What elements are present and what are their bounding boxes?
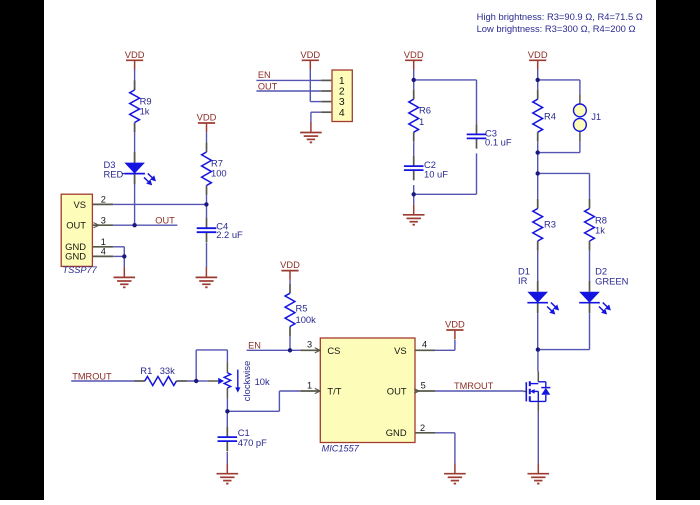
svg-text:OUT: OUT — [258, 81, 278, 91]
svg-text:2: 2 — [420, 423, 425, 433]
svg-text:5: 5 — [421, 380, 426, 390]
wire OUT pin5 to gate — [435, 390, 523, 392]
net label OUT at TSSP77 — [155, 215, 175, 225]
label TSSP77 — [63, 265, 98, 275]
svg-text:clockwise: clockwise — [242, 361, 253, 402]
svg-text:OUT: OUT — [155, 215, 175, 225]
svg-text:R5: R5 — [296, 303, 308, 314]
wire VDD to R4 node — [537, 70, 539, 90]
junction R3 R8 branch — [536, 171, 540, 175]
wire VDD to R6 node — [413, 70, 415, 90]
pin 4 GND — [65, 247, 113, 262]
power VDD above R7 — [197, 112, 217, 133]
net label EN at R5 — [248, 341, 261, 351]
pin 3 OUT — [66, 215, 113, 230]
svg-text:470 pF: 470 pF — [238, 437, 267, 448]
svg-text:1: 1 — [419, 116, 424, 127]
LED D1 IR — [518, 266, 559, 315]
pin 3 CS — [300, 340, 340, 356]
junction C2 C3 gnd — [412, 192, 416, 196]
resistor R8 1k — [585, 199, 607, 251]
junction pot C1 T/T — [225, 409, 229, 413]
wire VS pin4 to VDD — [435, 340, 455, 351]
wire J1 bottom to node — [538, 141, 580, 152]
svg-text:TMROUT: TMROUT — [454, 381, 494, 391]
capacitor C1 470pF — [218, 427, 268, 451]
wire node to J1 top — [538, 80, 580, 94]
net label TMROUT right — [454, 381, 494, 391]
svg-text:J1: J1 — [591, 111, 601, 122]
wire node to C1 — [226, 411, 228, 427]
svg-text:R1: R1 — [140, 365, 152, 376]
IC U1 MIC1557 body — [320, 338, 415, 443]
svg-text:3: 3 — [339, 97, 345, 108]
wire OUT to pin2 — [256, 90, 321, 92]
pin 4 — [321, 108, 345, 119]
junction D1 D2 drain — [536, 347, 540, 351]
pin 2 — [321, 87, 345, 98]
note high brightness — [477, 11, 643, 22]
ground below C1 — [217, 464, 239, 484]
wire R1 to node — [176, 380, 196, 382]
svg-text:VS: VS — [73, 199, 86, 210]
svg-text:VDD: VDD — [445, 319, 465, 330]
wire node to pot top — [196, 350, 227, 381]
svg-text:33k: 33k — [160, 365, 175, 376]
wire OUT pin3 net — [113, 224, 177, 226]
wire R6 to C2 — [413, 142, 415, 156]
pin 1 GND — [65, 237, 113, 252]
svg-text:GREEN: GREEN — [595, 276, 628, 287]
wire VS pin2 to R7 node — [113, 203, 206, 205]
wire VDD to pin3 — [310, 70, 321, 102]
net label EN top — [258, 70, 271, 80]
resistor R1 33k — [134, 365, 187, 386]
right black bar — [656, 0, 700, 500]
svg-text:VDD: VDD — [404, 49, 424, 60]
wire EN to pin1 — [256, 79, 321, 81]
svg-text:VS: VS — [394, 345, 407, 356]
wire D3 to OUT net — [134, 175, 136, 226]
svg-text:TMROUT: TMROUT — [72, 371, 112, 381]
pin 4 VS — [394, 340, 435, 356]
wire node to R3 — [537, 173, 539, 199]
wire R9 to D3 — [134, 123, 136, 164]
wire D1 to drain node — [537, 314, 539, 350]
junction R5 EN CS — [288, 348, 292, 352]
svg-text:3: 3 — [101, 215, 106, 225]
svg-text:T/T: T/T — [327, 386, 341, 397]
ground at MIC pin2 — [444, 464, 466, 484]
wire VDD to R7 — [206, 132, 208, 142]
connector CON1 body — [332, 70, 352, 122]
junction R1 pot — [194, 379, 198, 383]
svg-text:R3: R3 — [544, 219, 556, 230]
transistor Q1 N-MOSFET — [523, 371, 550, 411]
ground below connector — [300, 122, 322, 142]
net label TMROUT left — [72, 371, 112, 381]
capacitor C4 2.2uF — [197, 218, 243, 242]
wire pot bottom to node — [226, 398, 228, 411]
svg-text:4: 4 — [422, 340, 427, 350]
wire node to C3 top — [414, 80, 477, 124]
pin 1 — [321, 76, 345, 87]
svg-text:VDD: VDD — [300, 49, 320, 60]
svg-text:100: 100 — [211, 168, 227, 179]
resistor R4 — [533, 90, 556, 142]
wire GND pin2 to ground — [435, 433, 455, 464]
svg-text:High brightness: R3=90.9 Ω, R4: High brightness: R3=90.9 Ω, R4=71.5 Ω — [477, 11, 643, 22]
svg-text:1: 1 — [101, 237, 106, 247]
svg-text:RED: RED — [104, 169, 124, 180]
svg-text:10k: 10k — [255, 376, 270, 387]
svg-text:EN: EN — [258, 70, 271, 80]
svg-text:OUT: OUT — [387, 386, 407, 397]
ground below TSSP77 — [114, 267, 136, 287]
wire node to T/T pin1 — [227, 391, 300, 411]
junction VS R7 C4 — [204, 202, 208, 206]
wire node to R8 branch — [538, 173, 590, 199]
wire GND pin1 — [113, 247, 124, 257]
svg-text:2.2 uF: 2.2 uF — [216, 229, 243, 240]
svg-text:VDD: VDD — [280, 259, 300, 270]
svg-text:EN: EN — [248, 341, 261, 351]
capacitor C2 10uF — [404, 156, 448, 180]
junction D3 OUT — [132, 223, 136, 227]
wire VDD to R9 — [134, 70, 136, 91]
wire EN to CS pin3 — [247, 349, 301, 351]
pin 3 — [321, 97, 345, 108]
svg-text:2: 2 — [339, 87, 345, 98]
svg-text:0.1 uF: 0.1 uF — [485, 137, 512, 148]
wire R8 to D2 — [589, 251, 591, 282]
wire pin4 to ground — [311, 112, 322, 123]
wire Q1 source to ground — [537, 412, 539, 464]
svg-text:VDD: VDD — [197, 112, 217, 123]
svg-text:R4: R4 — [544, 111, 556, 122]
svg-text:TSSP77: TSSP77 — [63, 265, 98, 275]
LED D2 GREEN — [579, 266, 628, 315]
svg-text:MIC1557: MIC1557 — [322, 444, 360, 454]
wire VDD to R5 — [289, 280, 291, 284]
clockwise arrow annotation — [235, 361, 253, 402]
power VDD above R5 — [280, 259, 300, 280]
wire R4 to nodes — [537, 142, 539, 173]
potentiometer 10k — [208, 362, 270, 398]
wire node to wiper — [196, 380, 208, 382]
svg-text:GND: GND — [65, 251, 86, 262]
wire C4 to ground — [206, 243, 208, 268]
svg-text:CS: CS — [327, 345, 340, 356]
net label OUT top — [258, 81, 278, 91]
wire C1 to ground — [226, 452, 228, 464]
svg-text:VDD: VDD — [528, 49, 548, 60]
power VDD above R9 — [125, 49, 145, 70]
svg-text:1: 1 — [339, 76, 345, 87]
resistor R7 100 — [202, 142, 227, 195]
wire TMROUT net to R1 — [71, 380, 145, 382]
resistor R3 — [533, 199, 556, 251]
svg-text:R6: R6 — [419, 105, 431, 116]
wire R7 to C4 node — [206, 195, 208, 218]
svg-text:3: 3 — [307, 340, 312, 350]
resistor R5 100k — [285, 284, 316, 337]
svg-text:4: 4 — [339, 108, 345, 119]
label MIC1557 — [322, 444, 360, 454]
svg-text:1k: 1k — [595, 225, 605, 236]
svg-text:4: 4 — [101, 247, 106, 257]
junction VDD R4 J1 — [536, 78, 540, 82]
connector J1 — [574, 94, 602, 142]
pin 1 T/T — [300, 380, 341, 396]
svg-text:100k: 100k — [296, 314, 317, 325]
wire D2 to drain node — [538, 314, 590, 350]
power VDD above R6 — [404, 49, 424, 70]
svg-text:GND: GND — [386, 427, 407, 438]
resistor R9 1k — [130, 80, 152, 132]
junction R4 J1 lower — [536, 150, 540, 154]
left black bar — [0, 0, 44, 500]
LED D3 RED — [104, 152, 157, 185]
svg-text:VDD: VDD — [125, 49, 145, 60]
svg-text:OUT: OUT — [66, 220, 86, 231]
wire drain node to Q1 — [537, 350, 539, 372]
capacitor C3 0.1uF — [467, 124, 512, 148]
svg-text:10 uF: 10 uF — [424, 169, 448, 180]
IC U2 TSSP77 body — [61, 194, 92, 266]
wire C2 to gnd node — [413, 185, 415, 205]
pin 5 OUT — [387, 380, 435, 396]
pin 2 VS — [73, 195, 113, 210]
power VDD above connector — [300, 49, 320, 70]
power VDD at MIC pin4 — [445, 319, 465, 340]
svg-text:Low brightness: R3=300 Ω, R4=2: Low brightness: R3=300 Ω, R4=200 Ω — [477, 23, 636, 34]
resistor R6 1 — [409, 90, 431, 142]
ground below C4 — [196, 267, 218, 287]
junction VDD R6 C3 — [412, 78, 416, 82]
svg-text:2: 2 — [101, 195, 106, 205]
pin 2 GND — [386, 423, 435, 438]
power VDD above R4 — [528, 49, 548, 70]
svg-text:1k: 1k — [140, 106, 150, 117]
svg-text:1: 1 — [307, 380, 312, 390]
wire node to C3 bottom — [414, 153, 477, 194]
ground below C2 — [403, 205, 425, 225]
junction GND pins — [122, 254, 126, 258]
svg-text:IR: IR — [518, 275, 528, 286]
note low brightness — [477, 23, 636, 34]
wire GND pin4 to ground — [113, 256, 124, 267]
wire R3 to D1 — [537, 251, 539, 282]
wire R5 to EN node — [289, 336, 291, 350]
ground below Q1 — [528, 464, 550, 484]
